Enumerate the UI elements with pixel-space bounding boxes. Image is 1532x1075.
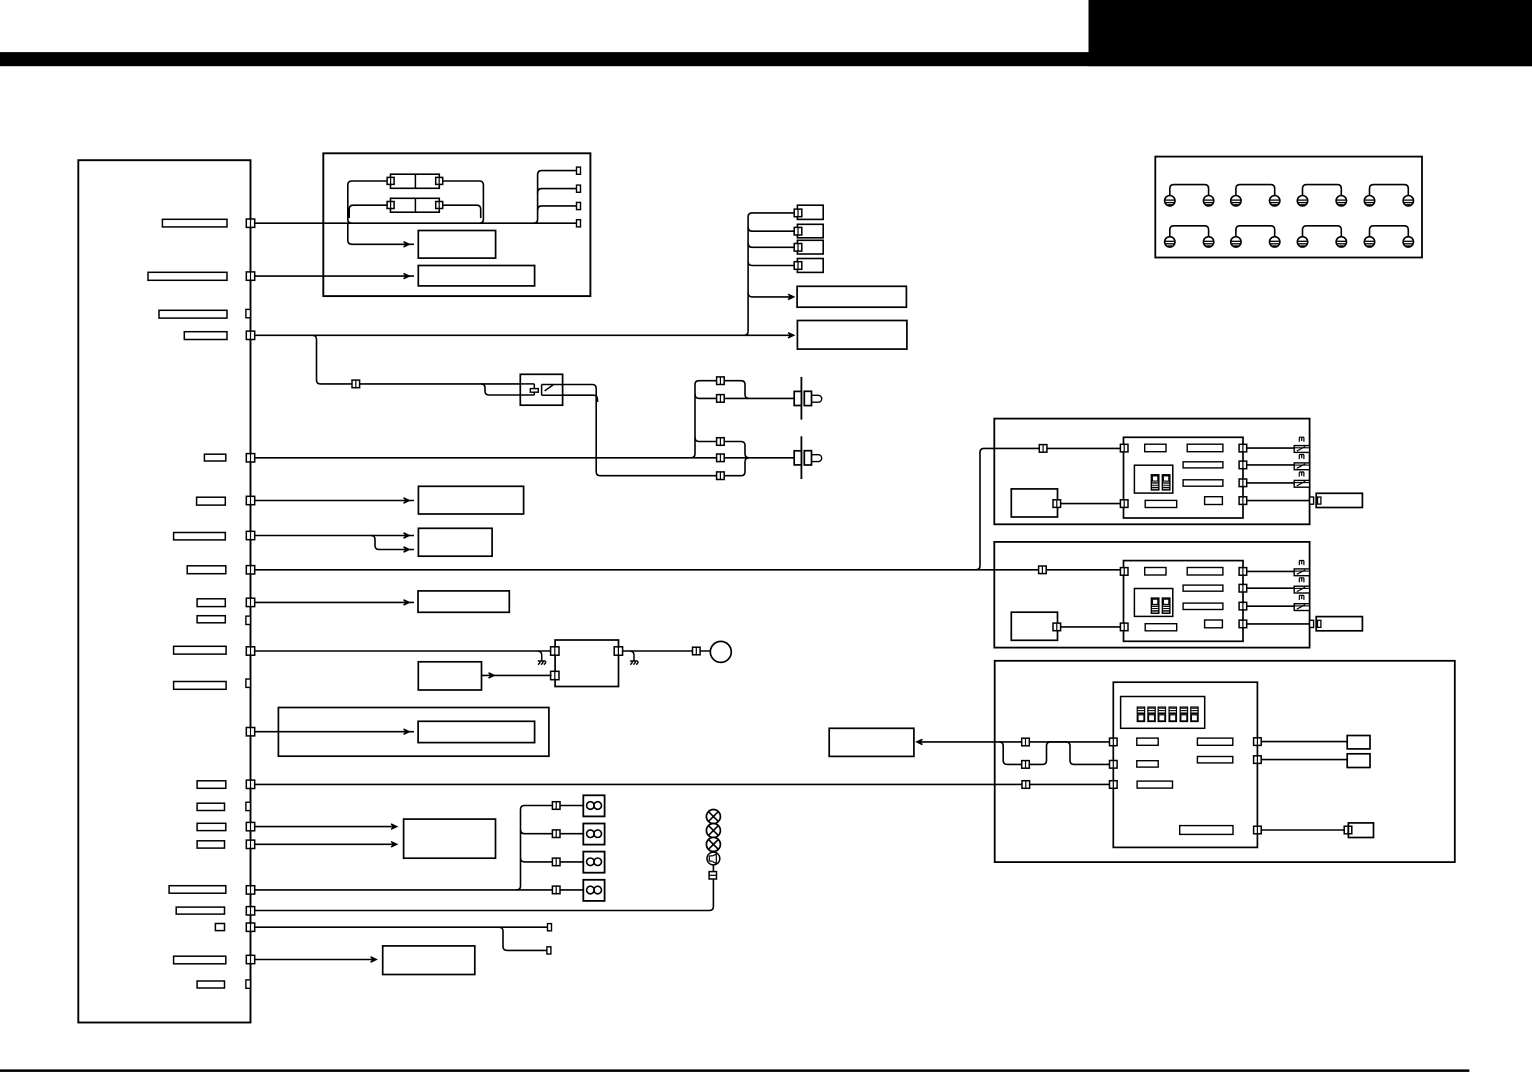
terminal pair row2-2 [1231, 226, 1280, 247]
regulator box [418, 231, 495, 259]
P4 box [418, 662, 481, 690]
P7 box [383, 946, 475, 975]
indicator lamp X1 [706, 810, 720, 824]
wire branch to P2 lower [371, 536, 414, 550]
wire P4 to motor driver [482, 674, 552, 676]
wire branch T [695, 438, 717, 442]
fuse F1 [387, 174, 443, 188]
meter lamp [707, 852, 720, 865]
socket C connector [794, 244, 802, 252]
pin label row 4 [184, 332, 227, 340]
IC rect row2 left [1137, 761, 1158, 767]
pin label row 7 [174, 533, 226, 540]
wire U loop to RCA1 [725, 381, 750, 399]
arrow into E box [788, 294, 794, 299]
wire conn6 to P1 box [255, 500, 414, 502]
power supply block box [323, 153, 590, 296]
arrow into F box [788, 333, 794, 338]
lamp L2 [583, 824, 604, 845]
arrow into P6 lower [391, 842, 397, 847]
control PCB right connector 2 [1254, 756, 1262, 764]
wire branch U2 [695, 394, 717, 398]
control PCB box [1113, 682, 1257, 847]
wire lamp3 lead [560, 861, 583, 863]
terminal pair row1-4 [1364, 185, 1413, 206]
wire to sensor box R2 [1261, 759, 1347, 761]
wire conn4 trunk [255, 334, 790, 336]
sensor box R2 [1347, 754, 1370, 768]
arrow into P3 box [404, 600, 410, 605]
connector T [717, 438, 725, 446]
P2 box [418, 528, 492, 556]
sensor R3 connector [1344, 826, 1352, 834]
lamp connector 2 [552, 830, 560, 838]
wire pin bus riser [534, 171, 577, 224]
terminal pair row1-3 [1297, 185, 1346, 206]
pin terminal 4 [577, 220, 581, 227]
wire conn14 long line to control PCB [255, 783, 1114, 785]
terminal pair row2-3 [1297, 226, 1346, 247]
edge connector 5 [246, 454, 254, 462]
pin label row 12 [174, 682, 227, 690]
pin terminal 3 [577, 202, 581, 209]
connector B [717, 472, 725, 480]
DIP switch 5 [1180, 707, 1187, 721]
control PCB left connector 3 [1110, 781, 1118, 789]
P6 box [404, 819, 496, 858]
speaker PCB unit 2 [994, 542, 1362, 648]
wire motor driver to motor [623, 650, 711, 652]
motor driver left connector top [551, 647, 559, 655]
wire conn19 to lamp stack [255, 879, 714, 911]
edge connector 4 [246, 331, 254, 339]
wire pin 2 branch [538, 189, 577, 193]
head assembly outer box [278, 708, 549, 757]
wire branch bus riser to output pins [748, 213, 795, 331]
socket B connector [794, 227, 802, 235]
control PCB left connector 1 [1110, 738, 1118, 746]
wire conn18 lamp feed [255, 889, 553, 891]
pin label row 20 [174, 956, 226, 964]
wire B loop join [725, 458, 750, 476]
F box [797, 321, 907, 350]
head assembly inner box [418, 721, 534, 742]
IC rect bottom [1180, 826, 1233, 835]
socket A connector [794, 209, 802, 217]
wire branch to terminal T2 [499, 927, 547, 950]
arrow into P1 box [404, 498, 410, 503]
connector on control feed wire [1022, 781, 1030, 789]
pin label row 13 [197, 781, 226, 789]
connector on unit1 feed [1039, 445, 1047, 453]
header title block (black) [1089, 0, 1532, 66]
pin label row 5 [204, 454, 225, 461]
terminal pair row2-4 [1364, 226, 1413, 247]
arrow into P2 box upper [404, 533, 410, 538]
wire conn7 to P2 box [255, 535, 414, 537]
RCA jack 2 [794, 436, 821, 479]
edge connector 19 [246, 907, 254, 915]
edge connector 20 [246, 923, 254, 931]
wire conn13 to head assembly [255, 731, 414, 733]
wire lamp bus riser [517, 806, 553, 890]
DIP switch 6 [1191, 707, 1198, 721]
wire conn20 to terminals [255, 926, 548, 928]
DIP switch 4 [1169, 707, 1176, 721]
arrow into transformer box [404, 274, 410, 279]
wire conn9 to P3 box [255, 601, 414, 603]
pin label row 15 [197, 823, 226, 830]
lamp connector 1 [552, 802, 560, 810]
wire conn1 to fuse block (main feed) [255, 222, 577, 224]
edge connector 10 (half) [246, 616, 251, 624]
wire conn11 to motor driver [255, 650, 552, 652]
pin label row 2 [148, 272, 227, 280]
sensor box R1 [1347, 736, 1370, 749]
fuse F2 [387, 198, 443, 212]
wire conn5 to phono line [255, 457, 795, 459]
pin label row 10 [197, 616, 225, 623]
pin label row 6 [197, 497, 226, 505]
wire step-down branch to relay coil [481, 384, 520, 395]
pin label row 17 [169, 886, 226, 894]
edge connector 12 (half) [246, 679, 251, 687]
IC rect row3 left [1137, 781, 1172, 788]
pin label row 9 [197, 599, 225, 607]
connector U2 [717, 395, 725, 403]
motor driver right connector [614, 647, 622, 655]
socket box A [797, 205, 823, 219]
relay K1 [520, 374, 562, 405]
wire relay line connector to relay [360, 383, 521, 385]
transformer box [418, 266, 534, 286]
edge connector 2 [246, 272, 254, 280]
DIP switch 2 [1148, 707, 1155, 721]
connector U1 [717, 377, 725, 385]
lamp connector 4 [552, 886, 560, 894]
wire fuse F1 left lead [348, 181, 388, 223]
lamp stack connector [709, 872, 716, 879]
wire fuse F1 right lead [442, 181, 483, 223]
terminal pair row2-1 [1165, 226, 1214, 247]
wire T loop join [725, 442, 750, 458]
edge connector 13 [246, 728, 254, 736]
pin label row 16 [197, 841, 224, 848]
wire lamp branch 2 [521, 830, 553, 834]
speaker terminal panel box [1155, 157, 1422, 258]
connector M [717, 454, 725, 462]
IC rect row1 left [1137, 738, 1158, 745]
arrow into regulator box [404, 242, 410, 247]
lamp L4 [583, 880, 604, 901]
pin label row 3 [159, 310, 227, 318]
wire conn2 to transformer box [255, 275, 414, 277]
DIP switch 3 [1158, 707, 1165, 721]
header rule bar [0, 52, 1532, 66]
wire output pin branch C [748, 243, 795, 247]
wire branch down to relay line [313, 335, 353, 384]
control PCB left connector 2 [1110, 761, 1118, 769]
arrow into P2 box lower [404, 547, 410, 552]
weave wire to control PCB row2 [999, 742, 1109, 765]
wire lamp branch 3 [521, 858, 553, 862]
wire relay output bottom joining drop [563, 395, 598, 402]
terminal pair row1-2 [1231, 185, 1280, 206]
wire bus foot fillet [744, 331, 748, 335]
motor M1 [710, 641, 731, 662]
sensor box R3 [1348, 823, 1373, 838]
wire to sensor box R3 [1261, 829, 1343, 831]
edge connector 7 [246, 531, 254, 539]
terminal T1 [548, 924, 552, 931]
pin label row 21 [197, 981, 224, 988]
edge connector 6 [246, 496, 254, 504]
indicator lamp X3 [706, 837, 720, 851]
terminal pair row1-1 [1165, 185, 1214, 206]
wire lamp2 lead [560, 833, 583, 835]
wire to sensor box R1 [1261, 741, 1347, 743]
wire conn21 to P7 box [255, 959, 376, 961]
wire conn8 long line to PCB box 2 [255, 569, 1122, 571]
lamp L1 [583, 795, 604, 816]
motor driver left connector bottom [551, 671, 559, 679]
wire pin 3 branch [538, 206, 577, 210]
pin label row 18 [176, 907, 224, 914]
edge connector 22 (half) [246, 980, 251, 988]
socket box C [797, 240, 823, 254]
IC rect row2 right [1197, 757, 1232, 763]
edge connector 8 [246, 566, 254, 574]
wire branch to regulator box [348, 223, 414, 244]
edge connector 9 [246, 598, 254, 606]
motor line connector [693, 647, 701, 655]
wire relay contact output top [563, 385, 717, 476]
pin label row 1 [162, 219, 227, 227]
pin terminal 1 [577, 167, 581, 174]
wire branch arrow to E box [748, 293, 793, 297]
DIP switch 1 [1137, 707, 1144, 721]
wire fuse F2 left lead [349, 205, 387, 218]
pin label row 14 [197, 803, 224, 810]
edge connector 15 (half) [246, 802, 251, 810]
edge connector 21 [246, 955, 254, 963]
control unit outer box [995, 661, 1455, 862]
arrow into display box [917, 739, 923, 744]
arrow into head assembly [404, 729, 410, 734]
pin label row 8 [187, 566, 226, 574]
connector on display line [1022, 738, 1030, 746]
P3 box [418, 591, 509, 612]
connector on weave wire [1022, 761, 1030, 769]
control PCB right connector 3 [1254, 826, 1262, 834]
edge connector 17 [246, 840, 254, 848]
ground G2 [630, 651, 639, 665]
edge connector 16 [246, 822, 254, 830]
wire output pin branch D [748, 262, 795, 266]
main unit box [78, 160, 250, 1022]
RCA jack 1 [794, 377, 821, 420]
arrow on P4 output [489, 673, 495, 678]
control PCB right connector 1 [1254, 738, 1262, 746]
arrow into P6 upper [391, 824, 397, 829]
speaker PCB unit 1 [994, 419, 1362, 525]
lamp connector 3 [552, 858, 560, 866]
socket box B [797, 224, 823, 238]
P1 box [418, 486, 523, 514]
edge connector 1 [246, 219, 254, 227]
motor driver box [555, 640, 618, 687]
arrow into P7 box [371, 957, 377, 962]
wire riser to PCB box 1 [976, 448, 1122, 569]
terminal T2 [547, 947, 551, 954]
wire output pin branch B [748, 227, 795, 231]
wire lamp4 lead [560, 889, 583, 891]
edge connector 14 [246, 780, 254, 788]
edge connector 3 (half) [246, 309, 251, 317]
wire U2 to RCA1 [725, 397, 795, 399]
IC rect row1 right [1197, 738, 1232, 745]
wire fuse F2 right lead [442, 205, 480, 218]
wire lamp stack stem [712, 865, 714, 872]
socket D connector [794, 262, 802, 270]
E box [797, 286, 906, 307]
relay line connector [352, 380, 360, 388]
wire control PCB to display box (left arrow) [917, 741, 1110, 743]
edge connector 18 [246, 886, 254, 894]
pin terminal 2 [577, 185, 581, 192]
footer rule line [0, 1069, 1469, 1072]
indicator lamp X2 [706, 824, 720, 838]
pin label row 11 [174, 646, 227, 654]
pin label row 19 [215, 924, 224, 931]
DIP switch bank frame [1121, 697, 1205, 729]
wire conn16 to P6 box [255, 826, 397, 828]
wire phono bus riser [691, 381, 717, 458]
socket box D [797, 259, 823, 273]
connector on unit2 feed [1039, 566, 1047, 574]
ground G1 [538, 651, 547, 665]
wire lamp1 lead [560, 805, 583, 807]
wire conn17 to P6 box [255, 843, 397, 845]
display box [829, 728, 914, 756]
edge connector 11 [246, 647, 254, 655]
lamp L3 [583, 852, 604, 873]
